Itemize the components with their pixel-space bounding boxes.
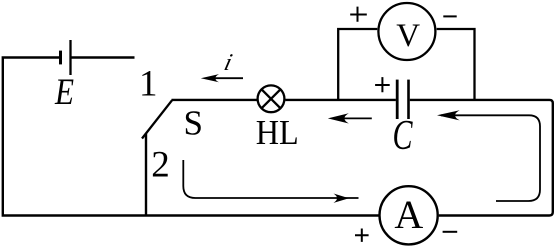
switch S: blade bbox=[142, 100, 172, 138]
arrow: discharge current between HL and C pointing left bbox=[341, 117, 372, 119]
svg-text:S: S bbox=[183, 103, 202, 142]
svg-text:E: E bbox=[54, 72, 74, 113]
svg-text:1: 1 bbox=[139, 63, 158, 104]
arrow: discharge current right of C pointing left, tail loops to bottom right bbox=[441, 115, 540, 201]
arrow: position 2 current path curving right toward ammeter bbox=[183, 160, 358, 198]
wire: lamp to capacitor left plate bbox=[285, 99, 396, 101]
svg-text:2: 2 bbox=[151, 144, 170, 185]
wire: voltmeter right branch bbox=[437, 29, 475, 100]
plus sign (capacitor + plate) bbox=[375, 77, 390, 92]
wire: voltmeter left branch bbox=[338, 29, 377, 100]
arrow: current i pointing left bbox=[212, 77, 243, 79]
battery E: short negative plate bbox=[59, 51, 62, 65]
svg-text:V: V bbox=[396, 18, 420, 54]
wire: left side + bottom-left (battery negative to ammeter) bbox=[3, 58, 379, 216]
wire: capacitor right to top-right corner, down right side, bottom-right to ammeter bbox=[410, 100, 553, 216]
wire: contact 1 to lamp bbox=[172, 99, 258, 101]
battery E: long positive plate bbox=[69, 40, 71, 75]
svg-text:HL: HL bbox=[256, 114, 299, 152]
minus sign (voltmeter -) bbox=[443, 15, 456, 17]
ammeter A: circle bbox=[380, 186, 438, 244]
svg-text:C: C bbox=[393, 113, 414, 159]
capacitor C: left plate bbox=[396, 80, 399, 119]
plus sign (ammeter +) bbox=[355, 229, 369, 242]
lamp HL: circle bbox=[258, 85, 285, 112]
voltmeter V: circle bbox=[378, 3, 435, 60]
switch S: pole wire down to bottom wire bbox=[145, 133, 147, 215]
svg-text:A: A bbox=[394, 192, 423, 237]
minus sign (ammeter -) bbox=[443, 231, 458, 233]
plus sign (voltmeter +) bbox=[350, 7, 367, 22]
lamp HL: cross bbox=[262, 89, 281, 108]
capacitor C: right plate bbox=[407, 80, 410, 119]
wire: battery positive to contact 1 bbox=[71, 56, 135, 58]
